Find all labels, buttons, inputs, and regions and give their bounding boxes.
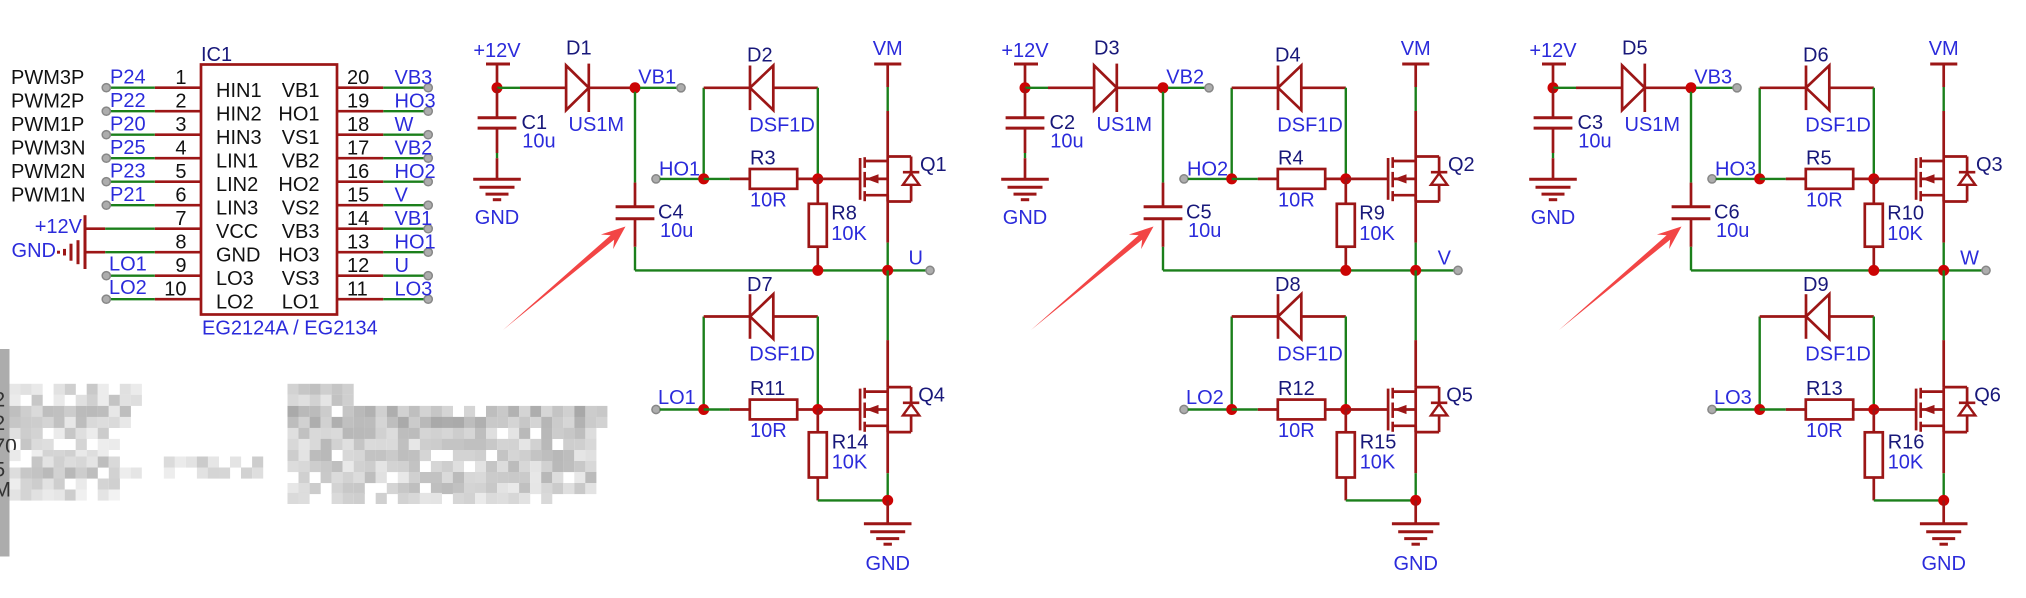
svg-text:P22: P22 <box>110 90 146 112</box>
svg-text:10K: 10K <box>831 223 867 245</box>
svg-text:10K: 10K <box>1359 223 1395 245</box>
svg-text:VS2: VS2 <box>282 198 320 220</box>
resistor R16 <box>1865 432 1883 477</box>
svg-text:M: M <box>0 479 11 502</box>
port node HO3 <box>1708 175 1716 183</box>
junction LO1 <box>698 404 709 415</box>
IC U-block IC1 <box>201 65 337 315</box>
diode D8 cathode stub <box>1232 315 1278 318</box>
resistor R14 bottom lead <box>816 478 819 501</box>
wire C4 to phase rail <box>634 247 636 271</box>
resistor R4 right stub <box>1325 178 1346 181</box>
IC port node HO1 (pin 13) <box>424 248 432 256</box>
wire C6 to phase rail <box>1690 247 1692 271</box>
capacitor C5 bottom lead <box>1162 219 1165 247</box>
svg-text:PWM3P: PWM3P <box>11 67 84 89</box>
svg-text:HIN1: HIN1 <box>216 80 262 102</box>
port node V <box>1454 266 1462 274</box>
diode D8 anode stub <box>1301 315 1346 318</box>
IC port node V (pin 15) <box>424 201 432 209</box>
svg-text:R15: R15 <box>1360 431 1397 453</box>
wire VB2 down to C5 <box>1162 92 1164 183</box>
svg-text:HIN2: HIN2 <box>216 104 262 126</box>
wire IC net LO2 row 10 <box>108 298 155 300</box>
junction Q2 gate node <box>1340 173 1351 184</box>
wire VM to Q3 drain <box>1942 87 1944 111</box>
svg-text:10: 10 <box>164 279 186 301</box>
svg-text:V: V <box>395 185 409 207</box>
svg-text:10u: 10u <box>660 220 693 242</box>
wire net P23 row 5 <box>108 180 155 182</box>
resistor R10 top lead <box>1872 179 1875 204</box>
resistor R11 left stub <box>730 408 750 411</box>
annotation arrow pointing at C4 <box>503 227 626 331</box>
svg-text:16: 16 <box>347 161 369 183</box>
resistor R15 bottom lead <box>1344 478 1347 501</box>
annotation arrow pointing at C6 <box>1559 227 1682 331</box>
wire IC net HO2 (pin 16) <box>383 180 424 182</box>
junction +12V/C1/D1 <box>492 82 503 93</box>
svg-text:10K: 10K <box>1888 452 1924 474</box>
resistor R5 left stub <box>1786 178 1806 181</box>
power symbol +12V (left bar) <box>84 215 87 242</box>
diode D1 <box>566 66 589 111</box>
transistor Q4 drain pin <box>886 340 889 387</box>
diode D8 <box>1278 294 1301 339</box>
transistor Q6 drain pin <box>1942 340 1945 387</box>
IC1 pin 5 stub <box>155 180 201 183</box>
pin 7 wire red stub from +12V bar <box>85 227 105 230</box>
wire D4 anode down to gate node <box>1345 88 1347 179</box>
svg-text:P24: P24 <box>110 67 146 89</box>
junction +12V/C2/D3 <box>1020 82 1031 93</box>
svg-text:P25: P25 <box>110 137 146 159</box>
diode D6 <box>1806 66 1829 111</box>
svg-text:VM: VM <box>873 38 903 60</box>
IC1 pin 14 stub <box>337 227 383 230</box>
svg-text:LO3: LO3 <box>1714 387 1752 409</box>
diode D3 cathode stub <box>1117 86 1163 89</box>
resistor R9 bottom lead <box>1344 247 1347 271</box>
wire D2 anode down to gate node <box>817 88 819 179</box>
junction Q6 gate node <box>1868 404 1879 415</box>
diode D9 anode stub <box>1829 315 1874 318</box>
wire VB1 down to C4 <box>634 92 636 183</box>
wire Q5 source to GND rail <box>1414 473 1416 500</box>
junction LO2 <box>1226 404 1237 415</box>
port node HO1 <box>652 175 660 183</box>
ground stem (stage 3 input) <box>1552 158 1555 179</box>
junction HO2 <box>1226 173 1237 184</box>
wire net +12V row 7 <box>105 227 155 229</box>
wire gate node to Q1 <box>818 178 860 181</box>
svg-text:LO2: LO2 <box>216 292 254 314</box>
wire +12V to D3 <box>1025 87 1048 89</box>
diode D4 <box>1278 66 1301 111</box>
wire LO3 node up to D9 <box>1758 317 1760 410</box>
transistor Q1 drain pin <box>886 111 889 157</box>
svg-text:GND: GND <box>1531 207 1575 229</box>
svg-text:R5: R5 <box>1806 147 1832 169</box>
pin 8 wire red stub from GND bar <box>85 251 105 254</box>
svg-text:14: 14 <box>347 208 369 230</box>
resistor R13 right stub <box>1853 408 1874 411</box>
svg-text:Q2: Q2 <box>1448 154 1475 176</box>
resistor R3 right stub <box>797 178 818 181</box>
diode D3 anode stub <box>1048 86 1094 89</box>
svg-text:+12V: +12V <box>473 40 521 62</box>
svg-text:US1M: US1M <box>1097 114 1153 136</box>
svg-text:DSF1D: DSF1D <box>1277 115 1343 137</box>
junction Q1 source/U <box>882 265 893 276</box>
wire VB2 to port <box>1168 87 1205 89</box>
IC1 pin 13 stub <box>337 251 383 254</box>
svg-text:D6: D6 <box>1803 45 1829 67</box>
capacitor C6 <box>1672 205 1711 208</box>
ground stem (stage 2 input) <box>1024 158 1027 179</box>
IC port node W (pin 18) <box>424 131 432 139</box>
resistor R16 bottom lead <box>1872 478 1875 501</box>
wire IC net U (pin 12) <box>383 275 424 277</box>
svg-text:11: 11 <box>347 279 368 301</box>
diode D7 cathode stub <box>704 315 750 318</box>
capacitor C1 <box>478 116 517 119</box>
wire D6 anode down to gate node <box>1873 88 1875 179</box>
wire IC net HO3 (pin 19) <box>383 110 424 112</box>
svg-text:Q4: Q4 <box>918 385 945 407</box>
junction Q5 gate node <box>1340 404 1351 415</box>
wire phase V to Q5 drain <box>1414 270 1416 340</box>
diode D7 <box>750 294 773 339</box>
svg-text:LIN2: LIN2 <box>216 174 258 196</box>
capacitor C3 bottom lead <box>1552 128 1555 153</box>
wire D9 anode down to gate node <box>1873 317 1875 410</box>
wire phase rail U <box>635 269 927 271</box>
svg-text:PWM2P: PWM2P <box>11 91 84 113</box>
svg-text:LO3: LO3 <box>395 279 433 301</box>
svg-text:VS1: VS1 <box>282 127 320 149</box>
wire C1 to GND <box>496 153 498 158</box>
resistor R12 right stub <box>1325 408 1346 411</box>
power +12V (stage 1) <box>486 63 510 66</box>
wire LO1 junction to R11 <box>704 408 730 410</box>
resistor R15 <box>1337 432 1355 477</box>
svg-text:+12V: +12V <box>1529 40 1577 62</box>
transistor Q4 <box>859 389 862 431</box>
resistor R11 right stub <box>797 408 818 411</box>
IC1 pin 19 stub <box>337 110 383 113</box>
svg-text:Q6: Q6 <box>1974 385 2001 407</box>
wire phase rail W <box>1691 269 1983 271</box>
svg-text:D2: D2 <box>747 45 773 67</box>
svg-text:9: 9 <box>175 255 186 277</box>
svg-text:EG2124A / EG2134: EG2124A / EG2134 <box>202 318 378 340</box>
svg-text:13: 13 <box>347 232 369 254</box>
svg-text:VB2: VB2 <box>395 138 433 160</box>
wire C3 to GND <box>1552 153 1554 158</box>
svg-text:R3: R3 <box>750 147 776 169</box>
svg-text:GND: GND <box>1921 553 1965 575</box>
port node P22 <box>102 107 110 115</box>
svg-text:2: 2 <box>0 388 5 411</box>
svg-text:HO2: HO2 <box>1187 158 1228 180</box>
resistor R5 right stub <box>1853 178 1874 181</box>
IC port node VB2 (pin 17) <box>424 154 432 162</box>
wire net P24 row 1 <box>108 86 155 88</box>
svg-text:VCC: VCC <box>216 221 258 243</box>
ground symbol (stage 3 output) <box>1920 522 1968 525</box>
svg-text:10R: 10R <box>1278 189 1315 211</box>
diode D5 <box>1622 66 1645 111</box>
wire R14 to Q4 source rail <box>818 499 888 501</box>
wire VM to Q2 drain <box>1414 87 1416 111</box>
svg-text:VB1: VB1 <box>282 80 320 102</box>
diode D9 cathode stub <box>1760 315 1806 318</box>
wire net P20 row 3 <box>108 133 155 135</box>
capacitor C4 <box>616 205 655 208</box>
junction HO3 <box>1754 173 1765 184</box>
wire Q6 source to GND rail <box>1942 473 1944 500</box>
svg-text:17: 17 <box>347 138 369 160</box>
svg-text:HO3: HO3 <box>278 245 319 267</box>
ground symbol (stage 2 output) <box>1392 522 1440 525</box>
capacitor C3 top lead <box>1552 88 1555 118</box>
transistor Q1 source pin <box>886 195 889 242</box>
svg-text:LO1: LO1 <box>282 292 320 314</box>
wire phase U to Q4 drain <box>887 270 889 340</box>
wire Q1 source to phase rail <box>887 243 889 271</box>
wire LO2 node up to D8 <box>1230 317 1232 410</box>
power +12V (stage 3) <box>1542 63 1566 66</box>
IC1 pin 10 stub <box>155 298 201 301</box>
capacitor C2 bottom lead <box>1024 128 1027 153</box>
power +12V (stage 2) <box>1014 63 1038 66</box>
junction VB3 node <box>1686 82 1697 93</box>
ground stem (stage 1 input) <box>496 158 499 179</box>
IC1 pin 7 stub <box>155 227 201 230</box>
IC1 pin 15 stub <box>337 204 383 207</box>
wire C5 to phase rail <box>1162 247 1164 271</box>
svg-text:VB3: VB3 <box>282 221 320 243</box>
resistor R10 bottom lead <box>1872 247 1875 271</box>
IC1 pin 20 stub <box>337 86 383 89</box>
svg-text:P20: P20 <box>110 114 146 136</box>
diode D2 <box>750 66 773 111</box>
IC port node U (pin 12) <box>424 272 432 280</box>
svg-text:D3: D3 <box>1094 38 1120 60</box>
wire IC net W (pin 18) <box>383 133 424 135</box>
svg-text:HO3: HO3 <box>395 91 436 113</box>
ground symbol (stage 1 output) <box>864 522 912 525</box>
svg-text:1: 1 <box>175 67 186 89</box>
svg-text:3: 3 <box>175 114 186 136</box>
resistor R13 <box>1806 400 1853 420</box>
IC port node VB3 (pin 20) <box>424 84 432 92</box>
svg-text:HO1: HO1 <box>395 232 436 254</box>
svg-text:D8: D8 <box>1275 274 1301 296</box>
junction Q3 gate node <box>1868 173 1879 184</box>
wire HO1 node up to D2 <box>703 88 705 179</box>
svg-text:GND: GND <box>865 553 909 575</box>
ground stem (stage 3 output) <box>1942 500 1945 523</box>
wire LO2 port to junction <box>1188 408 1232 410</box>
svg-text:LO1: LO1 <box>658 387 696 409</box>
svg-text:10u: 10u <box>1578 131 1611 153</box>
diode D2 cathode stub <box>704 86 750 89</box>
svg-text:2: 2 <box>0 412 5 435</box>
junction Q2 source/V <box>1410 265 1421 276</box>
diode D4 anode stub <box>1301 86 1346 89</box>
svg-text:12: 12 <box>347 255 369 277</box>
resistor R16 top lead <box>1872 410 1875 433</box>
junction R10/W <box>1868 265 1879 276</box>
wire HO2 junction to R4 <box>1232 178 1258 180</box>
port node U <box>926 266 934 274</box>
transistor Q2 <box>1387 158 1390 200</box>
diode D6 anode stub <box>1829 86 1874 89</box>
IC port node VB1 (pin 14) <box>424 225 432 233</box>
svg-text:LO3: LO3 <box>216 268 254 290</box>
capacitor C6 bottom lead <box>1690 219 1693 247</box>
IC1 pin 4 stub <box>155 157 201 160</box>
junction R8/U <box>812 265 823 276</box>
svg-text:7: 7 <box>175 208 186 230</box>
wire IC net V (pin 15) <box>383 204 424 206</box>
IC1 pin 3 stub <box>155 133 201 136</box>
capacitor C5 <box>1144 205 1183 208</box>
wire phase W to Q6 drain <box>1942 270 1944 340</box>
svg-text:D7: D7 <box>747 274 773 296</box>
svg-text:W: W <box>395 114 414 136</box>
transistor Q2 drain pin <box>1414 111 1417 157</box>
port node LO2 <box>1180 405 1188 413</box>
wire net P21 row 6 <box>108 204 155 206</box>
svg-text:VM: VM <box>1401 38 1431 60</box>
port node LO3 <box>1708 405 1716 413</box>
junction Q5 source/GND <box>1410 495 1421 506</box>
svg-text:R14: R14 <box>832 431 869 453</box>
svg-text:R10: R10 <box>1887 203 1924 225</box>
svg-text:GND: GND <box>1393 553 1437 575</box>
junction LO3 <box>1754 404 1765 415</box>
svg-text:VM: VM <box>1929 38 1959 60</box>
transistor Q5 source pin <box>1414 426 1417 473</box>
svg-text:GND: GND <box>12 240 56 262</box>
svg-text:VB1: VB1 <box>638 67 676 89</box>
transistor Q5 drain pin <box>1414 340 1417 387</box>
wire LO2 junction to R12 <box>1232 408 1258 410</box>
svg-text:HIN3: HIN3 <box>216 127 262 149</box>
wire VM to Q1 drain <box>887 87 889 111</box>
resistor R8 bottom lead <box>816 247 819 271</box>
svg-text:10u: 10u <box>1188 220 1221 242</box>
wire LO1 node up to D7 <box>703 317 705 410</box>
capacitor C2 <box>1006 116 1045 119</box>
svg-text:6: 6 <box>175 185 186 207</box>
wire LO3 junction to R13 <box>1760 408 1786 410</box>
svg-text:VB1: VB1 <box>395 208 433 230</box>
transistor Q3 <box>1915 158 1918 200</box>
svg-text:10K: 10K <box>1360 452 1396 474</box>
IC1 pin 1 stub <box>155 86 201 89</box>
wire IC net VB2 (pin 17) <box>383 157 424 159</box>
transistor Q2 source pin <box>1414 195 1417 242</box>
wire gate node to Q2 <box>1346 178 1388 181</box>
svg-text:LIN1: LIN1 <box>216 151 258 173</box>
port node W <box>1982 266 1990 274</box>
junction Q6 source/GND <box>1938 495 1949 506</box>
svg-text:D1: D1 <box>566 38 592 60</box>
svg-text:8: 8 <box>175 232 186 254</box>
IC1 pin 11 stub <box>337 298 383 301</box>
IC1 pin 17 stub <box>337 157 383 160</box>
port node P25 <box>102 154 110 162</box>
resistor R4 <box>1278 169 1325 189</box>
resistor R11 <box>750 400 797 420</box>
IC1 pin 12 stub <box>337 274 383 277</box>
wire gate node to Q4 <box>818 408 860 411</box>
diode D7 anode stub <box>773 315 818 318</box>
port node P21 <box>102 201 110 209</box>
power VM (stage 1) <box>886 64 889 87</box>
wire D8 anode down to gate node <box>1345 317 1347 410</box>
svg-text:HO2: HO2 <box>278 174 319 196</box>
IC port node HO2 (pin 16) <box>424 178 432 186</box>
wire HO1 port to junction <box>660 178 704 180</box>
svg-text:U: U <box>909 248 923 270</box>
port node VB3 <box>1733 84 1741 92</box>
wire D7 anode down to gate node <box>817 317 819 410</box>
port node HO2 <box>1180 175 1188 183</box>
transistor Q4 source pin <box>886 426 889 473</box>
svg-text:+12V: +12V <box>35 216 83 238</box>
capacitor C1 top lead <box>496 88 499 118</box>
resistor R3 <box>750 169 797 189</box>
diode D5 cathode stub <box>1645 86 1691 89</box>
diode D4 cathode stub <box>1232 86 1278 89</box>
svg-text:10R: 10R <box>1806 420 1843 442</box>
wire VB1 to port <box>640 87 677 89</box>
IC port node LO3 (pin 11) <box>424 295 432 303</box>
capacitor C1 bottom lead <box>496 128 499 153</box>
svg-text:2: 2 <box>175 91 186 113</box>
wire IC net HO1 (pin 13) <box>383 251 424 253</box>
diode D9 <box>1806 294 1829 339</box>
svg-text:DSF1D: DSF1D <box>1805 344 1871 366</box>
svg-text:R12: R12 <box>1278 378 1315 400</box>
resistor R13 left stub <box>1786 408 1806 411</box>
wire gate node to Q5 <box>1346 408 1388 411</box>
svg-text:10u: 10u <box>1716 220 1749 242</box>
junction +12V/C3/D5 <box>1548 82 1559 93</box>
diode D3 <box>1094 66 1117 111</box>
resistor R4 left stub <box>1258 178 1278 181</box>
power VM (stage 2) <box>1414 64 1417 87</box>
capacitor C4 top lead <box>634 183 637 207</box>
transistor Q3 drain pin <box>1942 111 1945 157</box>
svg-text:D9: D9 <box>1803 274 1829 296</box>
svg-text:15: 15 <box>347 185 369 207</box>
svg-text:VB3: VB3 <box>1694 67 1732 89</box>
svg-text:R11: R11 <box>750 378 785 400</box>
svg-text:20: 20 <box>347 67 369 89</box>
IC port node LO2 (pin 10) <box>102 295 110 303</box>
capacitor C4 bottom lead <box>634 219 637 247</box>
wire IC net LO3 (pin 11) <box>383 298 424 300</box>
wire net P25 row 4 <box>108 157 155 159</box>
wire LO1 port to junction <box>660 408 704 410</box>
svg-text:10u: 10u <box>1050 131 1083 153</box>
